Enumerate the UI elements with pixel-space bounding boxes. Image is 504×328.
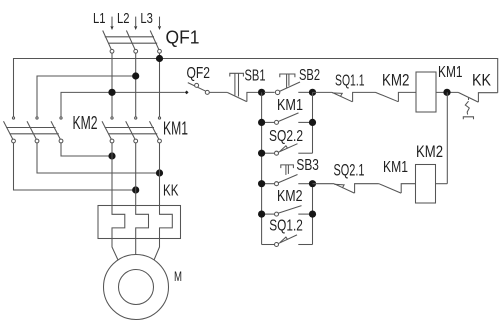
limit switch SQ1.2 label: [269, 218, 303, 235]
limit switch SQ2.2 NO contact: [262, 144, 313, 156]
svg-text:SQ1.1: SQ1.1: [335, 73, 365, 90]
svg-text:SB2: SB2: [299, 67, 320, 84]
wire right rail lower to SQ2.1: [313, 183, 335, 185]
node junction L1 tap: [108, 89, 115, 96]
wire tap L1 to KM2 branch and control line to QF2: [61, 92, 185, 117]
contactor KM2 main pole 3: [51, 117, 63, 143]
contactor KM1 main contacts label: [163, 119, 188, 139]
contact KM2 NC interlock label: [382, 71, 410, 90]
wire right rail top to SQ1.1: [313, 91, 333, 93]
motor M circle: [104, 255, 169, 320]
node junction KM1 aux left: [258, 119, 265, 126]
svg-text:KK: KK: [163, 183, 179, 200]
thermal relay KK heater phase 3: [160, 206, 173, 239]
contact KM1 NC interlock: [379, 184, 416, 193]
wire right rail upper segment: [312, 92, 314, 153]
svg-text:KM2: KM2: [73, 113, 98, 133]
node junction SB3 right: [309, 180, 316, 187]
limit switch SQ2.1 label: [334, 162, 365, 180]
breaker QF1 pole 3: [150, 31, 161, 54]
pushbutton SB2 NO contact: [264, 74, 310, 95]
limit switch SQ2.2 label: [269, 128, 303, 145]
node junction crossover L3: [156, 169, 163, 176]
breaker QF1 pole 2: [126, 31, 137, 54]
contactor KM2 main pole 2: [27, 117, 39, 143]
wire KM1 coil to KK contact: [436, 91, 458, 93]
wire left rail of interlock block: [261, 92, 263, 244]
node junction L3 tap: [156, 55, 163, 62]
limit switch SQ1.1 NC contact: [332, 92, 376, 101]
coil KM2 label: [416, 143, 443, 161]
thermal relay KK heater phase 2: [136, 206, 149, 239]
wire KM2 pole3 output crossover to L1 rail: [61, 143, 112, 156]
breaker QF1 label: [166, 28, 200, 48]
svg-text:KM2: KM2: [382, 71, 410, 90]
pushbutton SB3 NO contact: [262, 165, 313, 186]
wire motor lead 1: [112, 239, 118, 261]
node junction KM2 aux left: [258, 211, 265, 218]
coil KM2: [416, 165, 436, 204]
svg-text:L2: L2: [117, 10, 130, 27]
svg-text:M: M: [174, 268, 182, 284]
node junction crossover L2: [132, 186, 139, 193]
limit switch SQ1.1 label: [335, 73, 365, 90]
contactor KM2 main pole 1: [4, 117, 16, 143]
svg-text:SQ2.1: SQ2.1: [334, 162, 365, 180]
contact KM1 aux NO: [262, 113, 313, 125]
node junction L2 tap: [132, 72, 139, 79]
wire L1 vertical QF1 to KM1: [111, 53, 113, 117]
wire QF2 to SB1: [209, 91, 227, 93]
svg-text:L3: L3: [140, 10, 153, 27]
svg-text:SQ2.2: SQ2.2: [269, 128, 303, 145]
thermal contact KK NC: [458, 92, 498, 119]
contactor KM2 linkage bars: [6, 128, 59, 134]
wire L2 vertical QF1 to KM1: [135, 53, 137, 117]
node L1 feeder label: [93, 10, 106, 27]
wire L3 vertical QF1 to KM1: [159, 53, 161, 117]
svg-text:KM1: KM1: [383, 159, 408, 176]
svg-text:SB1: SB1: [245, 68, 266, 85]
contactor KM2 main contacts label: [73, 113, 98, 133]
svg-text:SQ1.2: SQ1.2: [269, 218, 303, 235]
contact KM2 aux NO label: [277, 188, 303, 205]
node junction SB3 left: [258, 180, 265, 187]
breaker QF1 pole 1: [103, 31, 114, 54]
contact KM1 aux NO label: [277, 97, 303, 114]
node junction KM2 aux right: [309, 211, 316, 218]
wire KM2 coil to common return: [436, 183, 448, 185]
thermal relay KK box: [98, 206, 181, 239]
contact KM2 aux NO: [262, 206, 313, 217]
svg-text:KM1: KM1: [163, 119, 188, 139]
svg-text:L1: L1: [93, 10, 106, 27]
breaker QF1 linkage bars: [105, 37, 157, 43]
contactor KM1 main pole 1: [102, 117, 114, 143]
node junction after SB1: [258, 89, 265, 96]
wire KM2 pole2 output crossover to L3 rail: [37, 143, 160, 173]
wire L1 feeder arrow: [110, 17, 113, 30]
thermal relay KK heater phase 1: [112, 206, 125, 239]
wire coils common return vertical: [446, 92, 448, 183]
wire L3 rail KM1 to KK box: [159, 143, 161, 206]
contact KM1 NC interlock label: [383, 159, 408, 176]
wire right rail lower segment: [312, 184, 314, 245]
svg-text:QF2: QF2: [187, 65, 211, 82]
svg-text:KM2: KM2: [277, 188, 303, 205]
wire L3 feeder arrow: [158, 17, 161, 30]
node L3 feeder label: [140, 10, 153, 27]
wire top tap L3 to KM2 branch and to KK return: [14, 59, 498, 117]
wire tap L2 to KM2 branch: [37, 76, 136, 117]
contact KM2 NC interlock: [376, 92, 417, 101]
coil KM1: [416, 72, 436, 112]
node junction after SB2: [309, 89, 316, 96]
contactor KM1 main pole 3: [150, 117, 162, 143]
pushbutton SB2 label: [299, 67, 320, 84]
wire L1 rail KM1 to KK box: [111, 143, 113, 206]
thermal relay KK label: [163, 183, 179, 200]
node junction KM1 aux right: [309, 119, 316, 126]
breaker QF2 contact: [185, 83, 210, 95]
node junction SQ2.2 left: [258, 150, 265, 157]
wire motor lead 2: [135, 239, 137, 256]
svg-text:KM1: KM1: [277, 97, 303, 114]
thermal contact KK label: [472, 71, 492, 90]
svg-text:KM1: KM1: [438, 64, 463, 81]
node junction crossover L1: [108, 152, 115, 159]
svg-text:QF1: QF1: [166, 28, 200, 48]
wire L2 feeder arrow: [134, 17, 137, 30]
motor M label: [174, 268, 182, 284]
breaker QF2 label: [187, 65, 211, 82]
coil KM1 label: [438, 64, 463, 81]
svg-text:SB3: SB3: [296, 157, 319, 174]
limit switch SQ2.1 NC contact: [334, 184, 379, 193]
contactor KM1 main pole 2: [126, 117, 138, 143]
svg-text:KK: KK: [472, 71, 492, 90]
wire motor lead 3: [154, 239, 160, 261]
pushbutton SB1 NC contact: [227, 73, 258, 101]
wire L2 rail KM1 to KK box: [135, 143, 137, 206]
node junction KM1 coil output: [443, 89, 450, 96]
node L2 feeder label: [117, 10, 130, 27]
svg-text:KM2: KM2: [416, 143, 443, 161]
wire KM2 pole1 output crossover to L2 rail: [14, 143, 136, 190]
pushbutton SB1 label: [245, 68, 266, 85]
pushbutton SB3 label: [296, 157, 319, 174]
limit switch SQ1.2 NO contact: [262, 235, 313, 247]
contactor KM1 linkage bars: [105, 128, 158, 134]
